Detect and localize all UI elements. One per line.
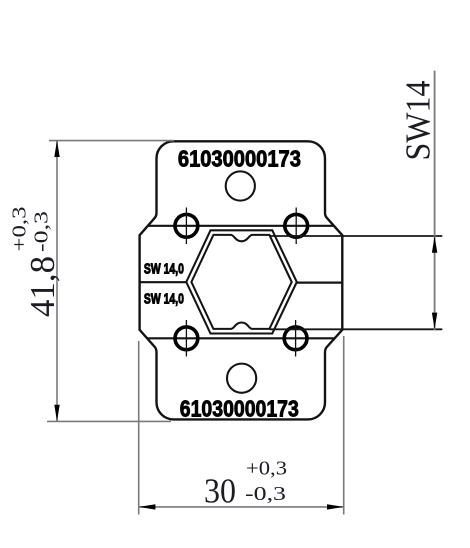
hole top-right <box>285 214 308 237</box>
extension line 41,8 top <box>49 140 174 142</box>
svg-text:30: 30 <box>204 472 236 511</box>
hole bottom-right crosshair <box>295 320 297 357</box>
parting line right <box>297 282 343 284</box>
joint line bottom <box>147 337 335 339</box>
extension line 30 left <box>138 341 140 515</box>
extension line 30 right <box>343 336 345 515</box>
hole top-left <box>175 214 198 237</box>
svg-text:SW 14,0: SW 14,0 <box>144 261 184 278</box>
extension line 41,8 bottom <box>47 420 171 422</box>
arrow 30 right <box>327 504 344 509</box>
svg-text:-0,3: -0,3 <box>31 211 53 252</box>
part outline <box>140 141 343 419</box>
hole top-left crosshair <box>185 208 187 245</box>
hole bottom-left <box>175 327 198 350</box>
bore top <box>226 171 255 200</box>
svg-text:+0,3: +0,3 <box>9 207 31 252</box>
arrow 41,8 up <box>54 140 59 157</box>
svg-text:-0,3: -0,3 <box>245 483 286 505</box>
bore bottom <box>227 364 256 393</box>
svg-text:61030000173: 61030000173 <box>178 146 301 172</box>
hole bottom-left crosshair <box>185 320 187 357</box>
parting line left <box>140 281 187 283</box>
dimension line SW14 <box>434 71 436 330</box>
hex opening outer <box>186 230 296 333</box>
svg-text:+0,3: +0,3 <box>246 458 287 480</box>
svg-text:SW 14,0: SW 14,0 <box>144 291 184 308</box>
arrow 30 left <box>139 504 156 509</box>
arrow SW14 up <box>432 236 437 253</box>
svg-text:61030000173: 61030000173 <box>180 395 299 421</box>
hole top-right crosshair <box>295 208 297 245</box>
dimension line 41,8 <box>56 140 58 421</box>
extension line SW14 top <box>270 235 442 237</box>
hex opening inner with notches <box>191 235 291 329</box>
hole bottom-right <box>284 327 307 350</box>
joint line top <box>148 225 334 227</box>
arrow SW14 down <box>432 313 437 330</box>
svg-text:41,8: 41,8 <box>23 256 62 317</box>
dimension line 30 <box>139 506 344 508</box>
svg-text:SW14: SW14 <box>399 81 438 161</box>
arrow 41,8 down <box>54 405 59 422</box>
extension line SW14 bottom <box>270 328 442 330</box>
